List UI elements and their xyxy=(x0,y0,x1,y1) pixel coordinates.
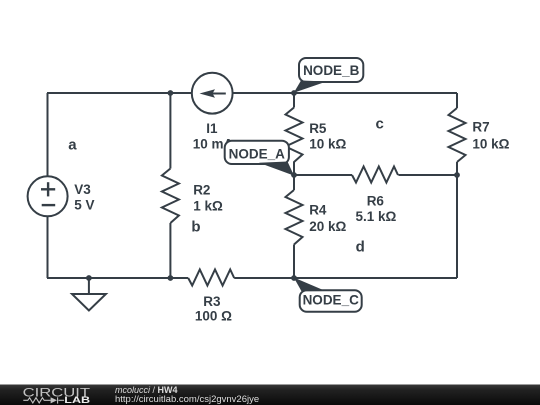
svg-text:100 Ω: 100 Ω xyxy=(195,309,232,324)
svg-text:R2: R2 xyxy=(193,182,210,197)
svg-text:10 kΩ: 10 kΩ xyxy=(309,136,346,151)
svg-text:d: d xyxy=(356,238,365,255)
svg-text:http://circuitlab.com/csj2gvnv: http://circuitlab.com/csj2gvnv26jye xyxy=(115,394,259,405)
svg-text:5 V: 5 V xyxy=(74,197,94,212)
svg-text:c: c xyxy=(376,116,384,133)
svg-text:NODE_B: NODE_B xyxy=(303,63,360,78)
svg-text:b: b xyxy=(191,218,200,235)
svg-text:LAB: LAB xyxy=(64,395,90,405)
svg-text:R7: R7 xyxy=(472,119,489,134)
svg-text:a: a xyxy=(68,137,77,154)
svg-text:NODE_C: NODE_C xyxy=(303,292,360,307)
svg-text:R6: R6 xyxy=(367,194,385,209)
svg-text:R3: R3 xyxy=(203,294,221,309)
svg-text:V3: V3 xyxy=(74,182,91,197)
svg-text:I1: I1 xyxy=(206,121,218,136)
svg-text:R4: R4 xyxy=(309,202,327,217)
svg-text:5.1 kΩ: 5.1 kΩ xyxy=(356,209,397,224)
svg-text:10 kΩ: 10 kΩ xyxy=(472,136,509,151)
svg-text:20 kΩ: 20 kΩ xyxy=(309,219,346,234)
svg-text:NODE_A: NODE_A xyxy=(229,146,286,161)
svg-text:R5: R5 xyxy=(309,121,327,136)
svg-text:1 kΩ: 1 kΩ xyxy=(193,199,223,214)
